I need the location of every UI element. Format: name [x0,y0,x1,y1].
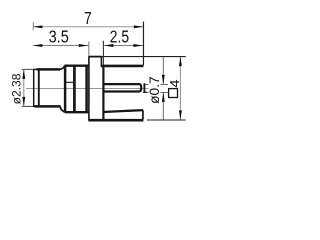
svg-text:ø2.38: ø2.38 [10,73,24,104]
svg-text:3.5: 3.5 [49,26,69,46]
svg-text:ø0.7: ø0.7 [147,76,162,104]
svg-text:4: 4 [167,80,182,88]
svg-text:7: 7 [84,8,92,28]
svg-text:2.5: 2.5 [110,27,129,47]
